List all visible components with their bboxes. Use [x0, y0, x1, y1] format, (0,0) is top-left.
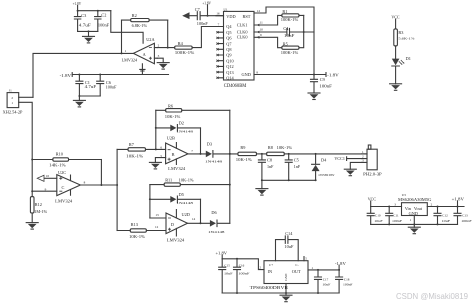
svg-text:R3: R3 — [398, 30, 403, 35]
svg-text:MS6206A30M5G: MS6206A30M5G — [398, 197, 432, 202]
svg-text:PH2.0-3P: PH2.0-3P — [363, 172, 382, 177]
capacitor C8 — [258, 154, 274, 180]
svg-text:1nF: 1nF — [267, 164, 274, 169]
svg-text:100nF: 100nF — [343, 282, 353, 286]
LED D1 — [392, 56, 411, 84]
svg-text:LMV324: LMV324 — [167, 238, 185, 243]
svg-text:C10: C10 — [375, 214, 381, 218]
power flag -1.8V left rail — [60, 73, 73, 79]
ground U2A + input — [157, 58, 169, 69]
ground U2C + input (arrow) — [37, 175, 57, 181]
wire U3 bottom rail — [371, 223, 458, 225]
ground clamp rail — [256, 180, 268, 195]
svg-text:CLK1: CLK1 — [237, 22, 248, 27]
power flag +1.8V — [73, 1, 82, 11]
wire U2B output — [188, 153, 206, 155]
svg-text:R8: R8 — [268, 145, 273, 150]
diode D3 — [205, 142, 238, 164]
svg-text:CSDN @Misaki0819: CSDN @Misaki0819 — [396, 292, 469, 301]
wire feedback right — [167, 20, 169, 48]
wire signal to connector — [289, 153, 367, 155]
svg-text:1N4148: 1N4148 — [176, 201, 193, 205]
resistor R6 — [156, 104, 230, 119]
svg-text:1N4148: 1N4148 — [176, 130, 193, 134]
svg-text:Q8: Q8 — [226, 47, 231, 52]
svg-text:1N4148: 1N4148 — [208, 230, 225, 234]
svg-text:C4: C4 — [283, 26, 289, 31]
wire U2A output — [33, 52, 133, 97]
wire -1.8V rail right — [259, 72, 339, 77]
svg-text:C18: C18 — [344, 278, 350, 282]
power flag +1.8V (TPS) — [216, 251, 228, 259]
svg-text:C: C — [62, 185, 65, 190]
svg-text:C5: C5 — [294, 158, 299, 163]
svg-text:10: 10 — [46, 174, 50, 178]
svg-text:IN: IN — [268, 269, 273, 274]
wire U3 output rail — [427, 206, 464, 208]
svg-text:R4: R4 — [178, 41, 184, 46]
svg-text:+1.8V: +1.8V — [216, 251, 228, 256]
svg-text:CLK0: CLK0 — [237, 29, 248, 34]
svg-text:10K-1%: 10K-1% — [277, 145, 293, 150]
svg-text:100nF: 100nF — [319, 84, 332, 89]
svg-text:Q6: Q6 — [226, 36, 232, 41]
svg-text:B: B — [172, 152, 175, 157]
op-amp U2A — [111, 11, 160, 75]
wire connector pin3 ground — [350, 162, 361, 169]
ground C3/C2 — [83, 31, 95, 43]
resistor R7 — [117, 142, 166, 158]
ground D1 — [390, 84, 402, 91]
svg-text:10uF: 10uF — [284, 244, 294, 249]
wire D5 output drop — [200, 199, 202, 224]
svg-text:C13: C13 — [462, 214, 468, 218]
svg-text:CLK0: CLK0 — [237, 35, 248, 40]
watermark — [396, 292, 469, 301]
capacitor C17 — [315, 270, 331, 294]
svg-text:U2D: U2D — [182, 212, 190, 217]
diode D2 — [156, 120, 201, 133]
power flag +1.8V (U3 out) — [452, 196, 464, 206]
svg-text:D2: D2 — [179, 120, 184, 125]
svg-text:16: 16 — [216, 12, 220, 16]
ground C1/C6 — [73, 96, 85, 107]
svg-text:TPS60400DBVR: TPS60400DBVR — [250, 285, 290, 290]
svg-text:C14: C14 — [285, 231, 293, 236]
svg-text:100nF: 100nF — [197, 21, 209, 26]
svg-text:R9: R9 — [240, 145, 245, 150]
svg-text:C8: C8 — [267, 158, 272, 163]
resistor R12 — [30, 197, 47, 223]
svg-text:R11: R11 — [165, 178, 172, 183]
svg-text:Q7: Q7 — [226, 41, 232, 46]
connector P1 — [362, 145, 383, 177]
svg-text:10K-1%: 10K-1% — [129, 234, 146, 239]
wire U2C inverting input — [32, 190, 57, 192]
wire J1 pin2 — [19, 96, 33, 98]
capacitor C2 — [95, 11, 110, 32]
resistor R10 — [32, 151, 101, 167]
wire RST to ground rail — [259, 7, 314, 75]
svg-text:C2: C2 — [101, 12, 106, 17]
svg-text:1M-1%: 1M-1% — [34, 209, 48, 214]
op-amp U2B — [155, 136, 193, 171]
svg-text:C11: C11 — [393, 214, 399, 218]
ground U3 — [408, 227, 420, 234]
svg-text:5.6K-1%: 5.6K-1% — [398, 36, 414, 40]
wire R11 left feedback drop — [149, 185, 151, 218]
capacitor C1 — [76, 75, 97, 97]
resistor R3 — [394, 29, 415, 59]
svg-text:R12: R12 — [35, 202, 42, 207]
resistor R8 — [267, 145, 293, 155]
svg-text:Q4: Q4 — [226, 24, 232, 29]
svg-text:Q5: Q5 — [226, 30, 231, 35]
svg-text:Q12: Q12 — [226, 64, 233, 69]
wire +1.8V rail — [77, 10, 111, 12]
wire input rail — [116, 149, 118, 230]
capacitor C9 — [311, 75, 333, 94]
capacitor C4 — [259, 26, 314, 38]
resistor R1 — [259, 9, 304, 25]
IC U4 TPS60400 — [250, 257, 308, 290]
svg-text:U1: U1 — [224, 7, 228, 11]
svg-text:OUT: OUT — [292, 269, 301, 274]
svg-text:-1.8V: -1.8V — [335, 261, 346, 266]
svg-text:6.8K-1%: 6.8K-1% — [132, 23, 148, 28]
diode D5 — [150, 192, 201, 205]
svg-text:C9: C9 — [320, 77, 325, 82]
svg-text:C16: C16 — [239, 263, 245, 267]
svg-text:XH2.54-2P: XH2.54-2P — [3, 109, 24, 114]
wire R10 feedback drop — [100, 160, 102, 186]
resistor R9 — [229, 145, 267, 162]
svg-text:100K-1%: 100K-1% — [281, 50, 299, 55]
svg-text:VDD: VDD — [226, 14, 235, 19]
power flag VCC (U3) — [368, 196, 376, 206]
svg-text:10K-1%: 10K-1% — [165, 114, 181, 119]
wire TPS bottom rail — [222, 292, 339, 294]
capacitor C3 — [74, 11, 91, 32]
capacitor C7 — [190, 7, 224, 26]
svg-text:1N5819W: 1N5819W — [318, 173, 336, 177]
svg-text:10uF: 10uF — [374, 219, 383, 223]
svg-text:100nF: 100nF — [98, 22, 110, 27]
wire U2D output — [188, 222, 210, 224]
svg-text:R1: R1 — [282, 9, 287, 14]
wire U2C output — [80, 184, 118, 186]
svg-text:12: 12 — [155, 225, 159, 229]
svg-text:100K-1%: 100K-1% — [175, 50, 195, 55]
svg-text:11: 11 — [260, 21, 264, 25]
svg-text:-1.8V: -1.8V — [327, 72, 339, 77]
capacitor C14 — [276, 231, 299, 261]
svg-text:4.7uF: 4.7uF — [85, 84, 97, 89]
resistor R5 — [259, 15, 304, 54]
svg-text:GND: GND — [409, 211, 418, 216]
power flag VCC1 — [334, 156, 361, 161]
wire U3 gnd stub — [413, 216, 415, 228]
wire U4 gnd stub — [285, 284, 287, 296]
svg-text:C7: C7 — [195, 7, 201, 12]
IC U1 CD4060BM — [216, 7, 263, 89]
svg-text:1N4148: 1N4148 — [205, 159, 223, 163]
svg-text:-1.8V: -1.8V — [60, 73, 72, 78]
svg-text:C-: C- — [295, 263, 298, 267]
svg-text:Q9: Q9 — [226, 53, 231, 58]
svg-text:Q13: Q13 — [226, 70, 233, 75]
resistor R2 — [122, 13, 168, 28]
svg-text:10K-1%: 10K-1% — [126, 154, 144, 159]
svg-text:1nF: 1nF — [294, 164, 301, 169]
svg-text:D4: D4 — [321, 157, 327, 162]
ground U4 — [280, 295, 292, 302]
svg-text:10K-1%: 10K-1% — [236, 157, 253, 162]
svg-text:4.7uF: 4.7uF — [79, 23, 92, 28]
capacitor C6 — [97, 75, 118, 97]
svg-text:13: 13 — [155, 213, 159, 217]
svg-text:100nF: 100nF — [392, 219, 402, 223]
wire D2 output drop — [200, 128, 202, 155]
op-amp U2D — [155, 210, 195, 243]
capacitor C13 — [454, 207, 472, 225]
svg-text:LMV324: LMV324 — [168, 166, 185, 171]
ground P1 — [344, 169, 356, 176]
capacitor C5 — [285, 153, 301, 180]
svg-text:CD4060BM: CD4060BM — [224, 84, 247, 89]
op-amp U2C — [45, 170, 86, 204]
resistor R11 — [150, 178, 230, 187]
diode D6 — [208, 210, 230, 234]
svg-text:J1: J1 — [9, 89, 12, 93]
svg-text:R6: R6 — [168, 104, 174, 109]
svg-text:C15: C15 — [224, 263, 230, 267]
wire cap bottoms — [78, 30, 98, 32]
wire rectifier output junction vertical — [229, 110, 231, 223]
wire TPS input rail — [222, 258, 264, 270]
capacitor C12 — [434, 207, 450, 225]
svg-text:R13: R13 — [131, 222, 138, 227]
ground U2B + input — [149, 162, 161, 169]
wire U3 input rail — [371, 206, 402, 208]
svg-text:RST: RST — [243, 14, 251, 19]
svg-text:C+: C+ — [269, 263, 273, 267]
svg-text:D5: D5 — [179, 192, 184, 197]
svg-text:Q10: Q10 — [226, 58, 233, 63]
resistor R13 — [117, 222, 166, 239]
ground R12 — [26, 223, 38, 230]
svg-text:+1.8V: +1.8V — [73, 1, 82, 6]
svg-text:C12: C12 — [442, 214, 448, 218]
svg-text:R5: R5 — [283, 42, 288, 47]
svg-text:GND: GND — [284, 273, 288, 281]
ground C9 — [308, 93, 320, 100]
wire clamp ground rail — [261, 179, 317, 181]
svg-text:D3: D3 — [207, 142, 212, 147]
capacitor C15 — [219, 259, 233, 293]
wire U2A inverting node — [157, 47, 174, 49]
svg-text:10uF: 10uF — [224, 271, 233, 275]
svg-text:Q14: Q14 — [226, 76, 234, 81]
svg-text:C3: C3 — [81, 13, 86, 18]
wire J1 pin1 to input node — [19, 102, 34, 196]
svg-text:10uF: 10uF — [442, 219, 451, 223]
capacitor C16 — [234, 259, 250, 294]
diode D4 — [312, 154, 336, 180]
capacitor C10 — [367, 207, 383, 225]
svg-text:LMV324: LMV324 — [122, 58, 138, 63]
capacitor C18 — [336, 270, 353, 293]
connector J1 — [3, 89, 24, 115]
power flag -1.8V (TPS out) — [335, 261, 346, 270]
svg-text:10: 10 — [260, 28, 264, 32]
svg-text:14: 14 — [192, 217, 196, 221]
svg-text:U2B: U2B — [167, 136, 175, 141]
wire cap bottoms left — [78, 95, 100, 97]
resistor R4 — [175, 27, 216, 56]
svg-text:100nF: 100nF — [461, 219, 472, 223]
svg-text:D1: D1 — [406, 56, 411, 61]
svg-text:10nF: 10nF — [284, 33, 295, 38]
svg-text:100nF: 100nF — [106, 84, 118, 89]
wire -1.8V rail — [72, 74, 168, 76]
wire U2D inverting input — [150, 217, 166, 219]
svg-text:14K-1%: 14K-1% — [49, 162, 66, 167]
capacitor C11 — [386, 207, 402, 225]
svg-text:LMV324: LMV324 — [55, 199, 72, 204]
wire R6 left feedback drop — [155, 110, 157, 149]
svg-text:R10: R10 — [56, 151, 63, 156]
svg-text:100K-1%: 100K-1% — [281, 17, 299, 22]
svg-text:10uF: 10uF — [322, 282, 330, 286]
wire TPS output — [308, 266, 340, 271]
svg-text:D: D — [171, 222, 174, 227]
svg-text:10K-1%: 10K-1% — [179, 178, 195, 183]
wire feedback left — [121, 20, 123, 53]
svg-text:GND: GND — [242, 72, 251, 77]
ground C7 (arrow) — [182, 12, 189, 19]
svg-text:+1.8V: +1.8V — [202, 0, 211, 5]
svg-text:U2C: U2C — [58, 170, 66, 175]
svg-text:U2A: U2A — [146, 37, 155, 42]
svg-text:100nF: 100nF — [238, 272, 249, 276]
svg-text:R2: R2 — [132, 13, 137, 18]
power flag +1.8V CD4060 — [202, 0, 211, 16]
svg-text:R7: R7 — [129, 142, 135, 147]
svg-text:D6: D6 — [211, 210, 217, 215]
svg-text:VCC: VCC — [368, 196, 376, 201]
svg-text:C17: C17 — [323, 278, 329, 282]
svg-text:VCC1: VCC1 — [334, 156, 345, 161]
power flag VCC (R3) — [391, 15, 399, 29]
regulator U3 — [394, 193, 432, 222]
